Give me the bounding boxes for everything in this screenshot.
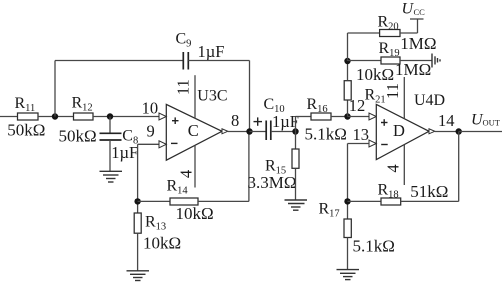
resistor R13 bbox=[134, 213, 181, 253]
svg-text:R13: R13 bbox=[145, 213, 166, 232]
wire node F to pin 12 bbox=[348, 116, 370, 118]
node I junction dot bbox=[456, 128, 462, 134]
wire R15 to ground bbox=[295, 168, 297, 200]
node C junction dot bbox=[134, 198, 140, 204]
node A junction dot bbox=[52, 113, 58, 119]
wire node F up to R21 bbox=[347, 100, 349, 117]
pin 10 arrow bbox=[159, 113, 166, 120]
wire node H to R18 bbox=[348, 200, 382, 202]
pin 11 wire U4D bbox=[403, 77, 405, 119]
pin 13 arrow bbox=[369, 140, 376, 147]
wire C8 to ground bbox=[109, 140, 111, 171]
svg-text:10: 10 bbox=[142, 98, 159, 117]
svg-text:R12: R12 bbox=[72, 95, 93, 114]
wire node E down to R15 bbox=[295, 132, 297, 150]
wire R16 to node F bbox=[331, 116, 348, 118]
UCC terminal bar bbox=[410, 18, 424, 20]
pin 9 arrow bbox=[159, 141, 166, 148]
wire pin 13 drop to node H bbox=[347, 144, 349, 220]
svg-text:1MΩ: 1MΩ bbox=[395, 60, 431, 79]
svg-text:51kΩ: 51kΩ bbox=[410, 182, 448, 201]
wire riser to node I bbox=[458, 132, 460, 202]
wire node G up to R20 line bbox=[347, 33, 349, 61]
op-amp U3C bbox=[166, 87, 227, 160]
wire feedback riser to output node bbox=[248, 132, 250, 202]
ground under R15 bbox=[285, 200, 308, 210]
ground under R13 bbox=[127, 271, 150, 281]
svg-text:U4D: U4D bbox=[414, 92, 445, 109]
resistor R16 bbox=[305, 96, 347, 143]
resistor R19 bbox=[379, 40, 432, 79]
svg-text:5.1kΩ: 5.1kΩ bbox=[353, 237, 395, 256]
svg-text:1µF: 1µF bbox=[198, 42, 225, 61]
capacitor C8 bbox=[100, 127, 139, 162]
svg-text:OUT: OUT bbox=[483, 118, 501, 128]
svg-text:11: 11 bbox=[383, 83, 402, 99]
ground under R17 bbox=[337, 270, 360, 280]
wire R21 to node G bbox=[347, 61, 349, 81]
pin 4 wire U3C bbox=[194, 145, 196, 187]
svg-text:4: 4 bbox=[383, 164, 402, 172]
pin 14 output arrow U4D bbox=[429, 129, 435, 134]
svg-text:R14: R14 bbox=[167, 178, 189, 197]
node D junction dot bbox=[246, 128, 252, 134]
resistor R20 bbox=[378, 14, 437, 53]
wire node C to R14 bbox=[138, 200, 170, 202]
wire R17 to ground bbox=[347, 238, 349, 270]
wire R18 to riser bbox=[401, 200, 459, 202]
wire pin 9 horizontal bbox=[138, 143, 160, 145]
node H junction dot bbox=[344, 198, 350, 204]
wire R20 to UCC riser bbox=[400, 32, 418, 34]
capacitor C9 bbox=[176, 30, 225, 69]
wire pin 13 horizontal bbox=[348, 143, 370, 145]
svg-text:4: 4 bbox=[176, 170, 195, 178]
wire U3C output to node D bbox=[228, 131, 250, 133]
svg-text:50kΩ: 50kΩ bbox=[59, 127, 97, 146]
resistor R17 bbox=[319, 201, 395, 256]
node F junction dot bbox=[344, 113, 350, 119]
wire feedback drop to output node bbox=[249, 61, 251, 132]
pin 8 output arrow U3C bbox=[222, 129, 228, 134]
svg-text:1MΩ: 1MΩ bbox=[400, 34, 436, 53]
svg-text:R11: R11 bbox=[15, 95, 36, 114]
wire between R11 and R12 bbox=[38, 116, 74, 118]
wire pin 9 drop to node C bbox=[137, 144, 139, 213]
resistor R14 bbox=[167, 178, 214, 224]
node G junction dot bbox=[344, 58, 350, 64]
svg-text:C9: C9 bbox=[176, 30, 192, 49]
wire node E up to R16 line bbox=[295, 117, 297, 132]
pin 4 wire U4D bbox=[403, 145, 405, 185]
svg-text:R16: R16 bbox=[307, 96, 328, 115]
svg-text:10kΩ: 10kΩ bbox=[356, 65, 394, 84]
op-amp U4D bbox=[376, 92, 445, 160]
wire node D to C10 bbox=[250, 131, 267, 133]
svg-text:9: 9 bbox=[147, 122, 155, 141]
wire R19 to side ground bbox=[400, 60, 432, 62]
ground sideways right of R19 bbox=[432, 54, 440, 68]
resistor R18 bbox=[378, 181, 449, 205]
wire C10 to node E bbox=[271, 131, 296, 133]
wire node G to R19 bbox=[348, 60, 382, 62]
svg-text:10kΩ: 10kΩ bbox=[143, 234, 181, 253]
svg-text:CC: CC bbox=[414, 7, 426, 17]
wire feedback riser from node A bbox=[54, 61, 56, 117]
svg-text:R18: R18 bbox=[378, 181, 399, 200]
svg-text:C: C bbox=[188, 121, 199, 140]
wire R14 to riser bbox=[198, 200, 249, 202]
svg-text:R19: R19 bbox=[379, 40, 400, 59]
svg-text:8: 8 bbox=[231, 111, 239, 130]
svg-text:D: D bbox=[393, 121, 405, 140]
wire output to right edge bbox=[459, 131, 502, 133]
wire input line left of R11 bbox=[0, 116, 18, 118]
svg-text:1µF: 1µF bbox=[111, 143, 138, 162]
node E junction dot bbox=[292, 128, 298, 134]
svg-text:11: 11 bbox=[174, 79, 193, 95]
wire U4D output to node I bbox=[435, 131, 459, 133]
svg-text:3.3MΩ: 3.3MΩ bbox=[248, 173, 297, 192]
wire R12 to pin 10 bbox=[93, 116, 160, 118]
svg-text:U3C: U3C bbox=[197, 87, 227, 104]
ground under C8 bbox=[100, 171, 123, 182]
wire UCC riser bbox=[417, 19, 419, 33]
wire to R20 bbox=[348, 32, 380, 34]
resistor R15 bbox=[248, 149, 300, 192]
svg-text:13: 13 bbox=[353, 125, 370, 144]
node B junction dot bbox=[107, 113, 113, 119]
svg-text:R17: R17 bbox=[319, 201, 340, 220]
svg-text:50kΩ: 50kΩ bbox=[7, 120, 45, 139]
svg-text:R20: R20 bbox=[378, 14, 399, 33]
wire feedback top right segment bbox=[188, 60, 249, 62]
capacitor C10 bbox=[254, 96, 299, 140]
pin 12 arrow bbox=[369, 113, 376, 120]
pin 11 wire U3C bbox=[194, 75, 196, 118]
resistor R12 bbox=[59, 95, 97, 146]
resistor R11 bbox=[7, 95, 45, 140]
svg-text:5.1kΩ: 5.1kΩ bbox=[305, 124, 347, 143]
resistor R21 bbox=[344, 65, 394, 106]
wire to R16 bbox=[296, 116, 312, 118]
svg-text:10kΩ: 10kΩ bbox=[176, 204, 214, 223]
wire R13 to ground bbox=[137, 233, 139, 271]
wire node B down to C8 bbox=[109, 117, 111, 134]
svg-text:14: 14 bbox=[438, 111, 455, 130]
wire feedback top left segment bbox=[55, 60, 183, 62]
